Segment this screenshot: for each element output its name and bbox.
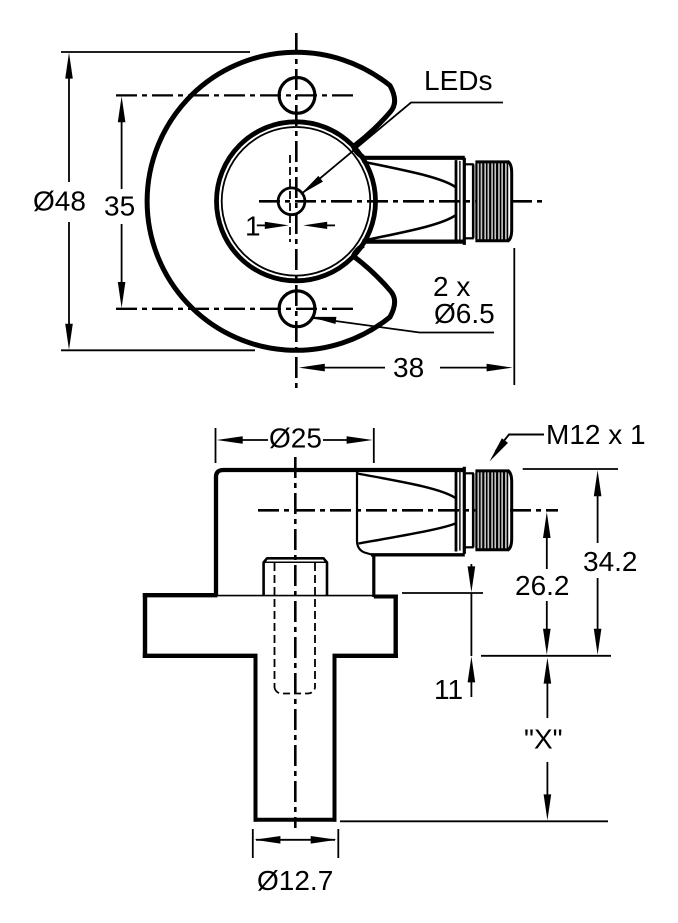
dimension 1 (LED offset) <box>257 222 335 229</box>
2x Ø6.5 leader line <box>310 317 494 333</box>
label Ø12.7 <box>257 865 333 896</box>
svg-text:"X": "X" <box>524 724 563 755</box>
hex boss (side view) <box>264 558 327 595</box>
svg-text:35: 35 <box>104 191 135 222</box>
label 35 <box>104 191 135 222</box>
barrel bottom edge (side view) <box>371 553 465 556</box>
body bottom junction line <box>218 595 374 597</box>
label M12 x 1 <box>546 419 646 450</box>
lens block left edge (side view) <box>357 470 372 555</box>
lens leaf top curve (side view) <box>358 474 456 499</box>
flange (side view) <box>143 593 398 658</box>
barrel end plate (side view) <box>456 469 460 551</box>
vertical centerline (side view) <box>294 457 297 828</box>
centerline through bottom mounting hole <box>116 308 353 310</box>
svg-text:Ø6.5: Ø6.5 <box>434 298 495 329</box>
threaded stud (side view) <box>254 655 337 822</box>
dimension 35 <box>118 96 126 308</box>
lens leaf top curve (top view) <box>363 162 456 188</box>
dimension X <box>544 658 552 821</box>
thread end cap (top view) <box>508 161 512 241</box>
svg-text:M12 x 1: M12 x 1 <box>546 419 646 450</box>
flange bottom extension line <box>481 655 611 657</box>
bottom mounting hole <box>279 291 315 327</box>
svg-text:Ø25: Ø25 <box>269 423 322 454</box>
label 38 <box>393 352 424 383</box>
M12 x 1 leader line <box>490 435 545 462</box>
connector barrel bottom edge (top view) <box>363 240 465 244</box>
body outline (side view) <box>216 470 465 596</box>
dimension Ø25 <box>216 428 374 463</box>
M12 threads (top view) <box>475 162 508 241</box>
dimension Ø12.7 <box>253 829 338 858</box>
dimension 34.2 <box>523 469 618 655</box>
dimension 26.2 <box>543 512 551 655</box>
body right edge below barrel <box>372 554 375 598</box>
label 34.2 <box>583 546 638 577</box>
label X <box>524 724 563 755</box>
lens leaf bottom curve (top view) <box>363 215 456 241</box>
tapped hole dashed lines <box>275 563 316 694</box>
M12 threads (side view) <box>475 471 508 550</box>
svg-text:26.2: 26.2 <box>515 570 570 601</box>
thread end cap (side view) <box>508 470 512 550</box>
dimension 38 <box>299 248 515 385</box>
dimension 11 <box>468 564 476 697</box>
label 26.2 <box>515 570 570 601</box>
connector collar and neck (side view) <box>464 467 474 554</box>
lens leaf bottom curve (side view) <box>359 524 456 544</box>
svg-text:11: 11 <box>434 674 463 705</box>
svg-text:34.2: 34.2 <box>583 546 638 577</box>
centerline through top mounting hole <box>116 94 353 96</box>
label Ø25 <box>269 423 322 454</box>
flange C-shaped outline <box>147 52 395 350</box>
connector collar and neck (top view) <box>464 158 474 245</box>
vertical centerline (top view) <box>295 33 298 390</box>
label 2 x Ø6.5 <box>433 271 495 329</box>
flange top extension line <box>402 592 483 594</box>
LED offset dashed line <box>289 155 291 242</box>
dimension Ø48 <box>61 52 255 350</box>
connector barrel top edge (top view) <box>363 156 465 160</box>
label 11 <box>434 674 463 705</box>
barrel end plate (top view) <box>456 160 460 242</box>
top mounting hole <box>279 78 315 114</box>
svg-text:LEDs: LEDs <box>424 65 492 96</box>
horizontal centerline (top view) <box>259 200 542 203</box>
svg-text:1: 1 <box>245 211 261 242</box>
sensor face outer circle <box>217 122 376 281</box>
LED circle <box>278 188 305 215</box>
svg-text:38: 38 <box>393 352 424 383</box>
svg-text:Ø12.7: Ø12.7 <box>257 865 333 896</box>
label Ø48 <box>33 186 86 217</box>
stud bottom extension line <box>340 820 608 822</box>
horizontal centerline (side view) <box>258 509 558 512</box>
label LEDs <box>424 65 492 96</box>
label 1 <box>245 211 261 242</box>
LEDs leader line <box>300 103 503 195</box>
sensor face inner circle <box>222 127 371 276</box>
svg-text:Ø48: Ø48 <box>33 186 86 217</box>
